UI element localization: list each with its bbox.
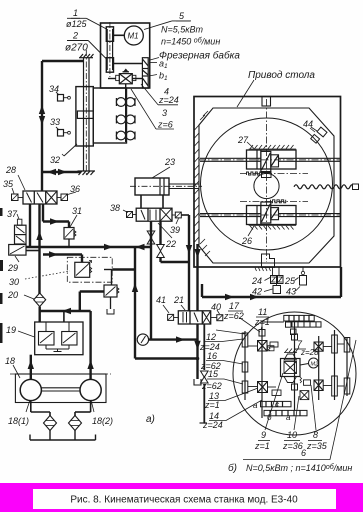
bevel gear cross [116, 69, 136, 83]
wire gauge to tank line [148, 338, 197, 340]
rack teeth 27 [247, 172, 262, 175]
svg-text:29: 29 [7, 263, 18, 273]
riser pump2 [89, 311, 91, 379]
regulator 30 valve [75, 261, 92, 278]
ground under table [255, 268, 271, 271]
leader 5 underline [176, 20, 191, 22]
svg-text:19: 19 [6, 325, 16, 335]
svg-text:15: 15 [208, 369, 219, 379]
svg-text:а: а [286, 413, 291, 422]
leader 6 [243, 340, 356, 460]
svg-text:z=6: z=6 [157, 120, 173, 130]
svg-text:38: 38 [110, 203, 120, 213]
flow arrows vertical [39, 105, 45, 125]
svg-text:42: 42 [252, 287, 262, 297]
pulley axis [109, 22, 111, 77]
arrow riser1 [28, 360, 34, 369]
arrow down below valve21 [194, 341, 200, 350]
tank symbol [194, 379, 201, 385]
scan artifacts left edge [0, 208, 3, 343]
svg-text:22: 22 [165, 239, 176, 249]
wire cyl23 to valve38 [141, 195, 163, 208]
leader 28 [18, 175, 25, 190]
svg-text:16: 16 [207, 351, 217, 361]
sensor ticks under table [273, 268, 304, 276]
worm gear pair 2 [116, 115, 135, 124]
pressure gauge [137, 334, 148, 345]
leader 20 [24, 295, 34, 299]
svg-text:z=1: z=1 [254, 317, 270, 327]
cylinder 26 anchor hatch [249, 226, 296, 230]
boss bottom pinion [262, 254, 275, 267]
cylinder 27 [247, 150, 297, 172]
leader 38 [123, 210, 128, 213]
top rack rail [284, 315, 314, 321]
piston [77, 111, 93, 118]
leader 19 [18, 331, 35, 337]
svg-text:z=62: z=62 [201, 381, 222, 391]
milling head box [101, 23, 150, 88]
svg-text:31: 31 [72, 206, 82, 216]
leader 39 [176, 219, 179, 225]
valve 21 body [178, 311, 210, 324]
wire drain y358.5 [135, 357, 198, 359]
svg-text:z=24: z=24 [202, 420, 223, 430]
arrow to valve31 [50, 218, 59, 224]
solenoid 36 [57, 194, 68, 201]
wire below valve28 left [29, 204, 31, 247]
check valve on x204 [201, 371, 209, 383]
leader 10 [294, 396, 299, 430]
svg-text:12: 12 [206, 332, 216, 342]
svg-text:ø270: ø270 [65, 43, 88, 54]
rod axis 1 [199, 159, 340, 161]
riser pump1 [30, 355, 32, 380]
suction pump2 [75, 401, 91, 416]
central shaft [294, 321, 296, 411]
svg-text:32: 32 [50, 155, 60, 165]
svg-text:а): а) [146, 414, 155, 425]
worm unit hatch [284, 349, 297, 353]
solenoid 40 [211, 315, 223, 321]
leader frez [150, 58, 159, 61]
belt [106, 29, 108, 70]
svg-text:z=36: z=36 [282, 441, 303, 451]
caption magenta bar [0, 483, 363, 512]
leader 44 [310, 128, 315, 132]
rod axis 23 [130, 185, 202, 187]
clutch boxes [300, 391, 309, 400]
spindle cylinder [76, 87, 93, 146]
leader 9 [265, 373, 283, 430]
svg-text:Рис. 8. Кинематическая схема с: Рис. 8. Кинематическая схема станка мод.… [70, 495, 298, 506]
bevel box II lower [258, 382, 268, 393]
rack axis 2 [240, 201, 308, 203]
cylinder 23 rod [169, 184, 199, 189]
svg-text:б: б [267, 413, 272, 422]
worm gear pair 1 [116, 98, 135, 107]
wire: supply to head [42, 61, 84, 191]
svg-text:33: 33 [50, 117, 60, 127]
svg-text:18(2): 18(2) [92, 416, 113, 426]
svg-text:35: 35 [3, 179, 14, 189]
rack teeth 26 [271, 200, 286, 203]
table circle [201, 118, 333, 250]
leader 31 [70, 215, 77, 227]
svg-text:8: 8 [313, 430, 318, 440]
svg-text:6: 6 [301, 448, 306, 458]
wire below valve28 right [43, 204, 69, 228]
screw top anchor [79, 54, 94, 58]
rail small gears mid-left [270, 342, 281, 396]
pump 18(2) [80, 379, 101, 400]
shaft IV vertical [318, 336, 320, 400]
boss top pinion [262, 172, 272, 178]
wire valve38 ports down [151, 221, 189, 339]
bottom rack rail a-c [261, 401, 292, 406]
rod axis 2 [199, 214, 340, 216]
motor M1 label [128, 32, 139, 41]
worm gear box [281, 359, 301, 377]
solenoid 41 [168, 314, 179, 320]
knee box [93, 88, 126, 143]
top feed link [262, 322, 284, 327]
pulley lower [106, 58, 113, 72]
leader 37 [17, 214, 19, 219]
svg-text:26: 26 [241, 236, 252, 246]
arrow up on x135 [132, 283, 138, 292]
svg-text:z=1: z=1 [204, 400, 220, 410]
motor M1 [124, 26, 143, 45]
damper spring II [268, 346, 275, 351]
switch block 24 [271, 276, 284, 284]
caption white box [33, 489, 336, 509]
arrow up x39.5 [36, 231, 42, 240]
hatch on left edge [195, 111, 211, 256]
arrows on y247 [104, 244, 145, 250]
pump unit frame [15, 374, 106, 403]
svg-text:17: 17 [229, 301, 240, 311]
shaft V gears [332, 335, 338, 396]
flow arrows horizontal [47, 169, 67, 175]
wire supply to reg30 [43, 255, 82, 263]
svg-text:с: с [275, 400, 279, 409]
shaft I vertical [244, 331, 246, 400]
svg-text:3: 3 [162, 108, 167, 118]
rail gear blocks [286, 322, 322, 335]
wire x135 down [134, 247, 136, 359]
table octagon [199, 108, 334, 263]
svg-text:34: 34 [49, 84, 59, 94]
cross links left [248, 346, 276, 387]
shaft I gears [242, 333, 248, 393]
motor shaft [114, 34, 125, 36]
leader 18 [13, 365, 20, 378]
shaft II vertical [261, 327, 263, 418]
leader 40 [217, 310, 220, 314]
top pin rect [262, 97, 271, 107]
cylinder 23 [135, 178, 169, 195]
shaft II top gear [259, 330, 265, 337]
svg-text:20: 20 [7, 290, 18, 300]
arrow on y254.5 [49, 251, 58, 257]
arrow on y311 [62, 308, 71, 314]
tank bracket [30, 431, 96, 441]
check valve 2 [147, 231, 155, 244]
switch 43 pin [300, 271, 307, 285]
svg-text:z=28: z=28 [300, 348, 319, 357]
svg-text:N=0,5кВт ; n=1410об/мин: N=0,5кВт ; n=1410об/мин [246, 463, 352, 473]
svg-text:б): б) [228, 462, 237, 474]
worm unit cone bottom [284, 377, 297, 383]
cross links right [323, 344, 344, 386]
piston rod 2 [200, 214, 340, 217]
relief block 19 [35, 322, 83, 355]
center boss circle [254, 173, 279, 198]
filter 2 [69, 416, 82, 431]
valve 39 solenoid right [172, 212, 181, 218]
ratchet box [304, 380, 311, 385]
shaft b1 [132, 78, 142, 80]
valve W relief [104, 285, 119, 297]
switch 34 [56, 92, 70, 101]
check valve pair [157, 245, 165, 258]
label underlines [71, 17, 80, 19]
worm unit cone top [284, 354, 297, 360]
svg-text:39: 39 [170, 225, 180, 235]
svg-text:11: 11 [258, 307, 267, 317]
valve 38 solenoid left [127, 212, 137, 218]
wire below valve28 mid [38, 204, 40, 294]
suction pump1 [31, 401, 50, 416]
svg-text:n=1450 об/мин: n=1450 об/мин [161, 37, 220, 47]
wire valve21 drain [196, 324, 198, 379]
shaft VI gears [344, 338, 350, 395]
leader 7 [295, 347, 299, 353]
svg-text:М2: М2 [311, 362, 319, 368]
leader 3 [156, 128, 174, 130]
svg-text:30: 30 [9, 277, 19, 287]
svg-text:Фрезерная бабка: Фрезерная бабка [159, 50, 240, 62]
svg-text:24: 24 [251, 276, 262, 286]
label 32 leader [64, 144, 77, 156]
wire 29 to main [26, 250, 40, 252]
cylinder 27 anchor hatch [249, 145, 296, 149]
rack axis 1 [240, 173, 308, 175]
svg-text:ø125: ø125 [66, 19, 88, 29]
feed gearbox circle [233, 312, 356, 435]
worm gear pair 3 [116, 131, 135, 140]
wire right sol to line [181, 214, 189, 216]
svg-text:40: 40 [211, 302, 221, 312]
wire reg30 out [104, 268, 135, 270]
valve W drain tank [107, 297, 114, 314]
svg-text:z=24: z=24 [158, 95, 179, 105]
wire return y247 [26, 246, 151, 248]
svg-text:28: 28 [5, 165, 16, 175]
screw bottom anchor (ground) [78, 171, 96, 175]
filter 20 [34, 293, 46, 307]
svg-text:41: 41 [156, 295, 166, 305]
svg-text:37: 37 [7, 209, 18, 219]
central shaft gears [292, 334, 298, 390]
svg-text:z=1: z=1 [254, 441, 270, 451]
valve 37 [15, 219, 27, 244]
wire W to filter line [40, 292, 104, 312]
spring drive [300, 377, 302, 383]
worm shaft [125, 84, 127, 142]
leader 17 [240, 318, 260, 332]
pulley upper [106, 27, 113, 42]
pipe A down [188, 215, 190, 311]
switch 33 [56, 127, 70, 136]
svg-text:18: 18 [5, 356, 15, 366]
shaft VI vertical [346, 337, 348, 396]
piston rod 1 [200, 158, 340, 161]
leader 27 [247, 142, 254, 149]
leader privod [237, 80, 254, 107]
leader 18-1 [26, 400, 30, 412]
leader 8 [311, 385, 316, 430]
svg-text:а: а [253, 401, 258, 410]
wire: to screw base [42, 171, 81, 173]
leader 23 [152, 167, 170, 178]
svg-text:9: 9 [261, 430, 266, 440]
leader 26 [248, 226, 254, 236]
coupling shaft [41, 388, 80, 391]
bottom rack rail b-a [264, 410, 307, 415]
svg-text:27: 27 [237, 135, 249, 145]
svg-text:z=35: z=35 [306, 441, 328, 451]
valve 38 body [136, 208, 172, 221]
svg-text:44: 44 [303, 119, 313, 129]
branch to block19 [63, 311, 65, 322]
bevel box II upper [258, 341, 268, 352]
leader 32b [62, 154, 64, 156]
lead screw [84, 50, 90, 175]
solenoid 35 [12, 194, 24, 201]
pump shaft axis [10, 373, 111, 375]
svg-text:36: 36 [70, 184, 80, 194]
valve 28 body [23, 191, 57, 204]
leader 11 [261, 326, 262, 330]
leader 4 [158, 104, 178, 106]
leader 21 [181, 305, 185, 310]
bevel box IV upper [314, 342, 323, 351]
cylinder 26 [247, 202, 297, 225]
label 1 leader [67, 18, 107, 29]
leaders gear labels left [205, 339, 243, 342]
svg-text:1: 1 [73, 8, 78, 18]
leader b1 [149, 75, 157, 77]
arrow on y297 [225, 294, 259, 300]
center axis dash-dot [266, 99, 268, 262]
gear column [142, 58, 148, 88]
leader 35 [12, 188, 14, 194]
svg-text:25: 25 [284, 276, 296, 286]
clamp 44 [311, 127, 327, 143]
leader 42 [264, 289, 273, 292]
motor M2 [300, 358, 319, 368]
bevel box IV lower [314, 380, 323, 391]
svg-text:18(1): 18(1) [8, 416, 29, 426]
svg-text:N=5,5кВт: N=5,5кВт [161, 25, 204, 35]
arrow on pipe B [194, 249, 200, 258]
leader 43 [296, 287, 301, 292]
svg-text:z=62: z=62 [223, 311, 244, 321]
pipe B down [196, 244, 198, 311]
leader 29 [15, 256, 19, 262]
arrow on gauge line [176, 336, 185, 342]
svg-text:2: 2 [72, 31, 78, 41]
leader 12top [216, 330, 245, 334]
svg-text:М1: М1 [128, 32, 139, 41]
shaft a1 [114, 63, 143, 65]
leader 18-2 [91, 400, 94, 412]
shaft V vertical [334, 330, 336, 400]
pump 18(1) [20, 379, 41, 400]
svg-text:23: 23 [164, 157, 175, 167]
junction dot [196, 357, 200, 361]
valve 31 [64, 228, 76, 248]
leader 30 dotted [25, 271, 70, 279]
regulator 30 frame [67, 257, 112, 282]
leader 22 [158, 223, 172, 238]
label 2 leader [67, 41, 107, 60]
svg-text:10: 10 [287, 430, 297, 440]
arrow on pipe A [186, 245, 192, 254]
switch block 42 [273, 286, 281, 294]
table drive frame [194, 97, 341, 268]
svg-text:21: 21 [173, 295, 184, 305]
filter 1 [44, 416, 57, 431]
arrow riser2 [87, 360, 93, 369]
wire to valve W [111, 270, 113, 286]
svg-text:43: 43 [286, 287, 296, 297]
label 5 leader [144, 21, 190, 30]
wire filter to block19 [39, 307, 41, 322]
valve 29 box [9, 245, 26, 256]
wire x204 down with check [200, 324, 208, 423]
svg-text:Привод стола: Привод стола [248, 70, 315, 81]
leader 36 [66, 192, 76, 195]
leader a1 [149, 62, 157, 64]
spring end block [353, 184, 359, 190]
wire table return y297 [202, 267, 341, 297]
leader 41 [163, 305, 169, 313]
spring to clamp [294, 185, 353, 189]
